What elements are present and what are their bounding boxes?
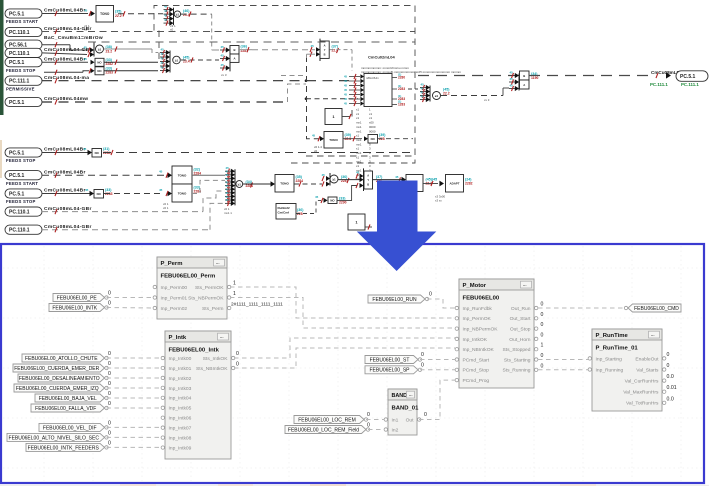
svg-text:45: 45 [84, 9, 88, 13]
svg-text:FEEDS STOP: FEEDS STOP [6, 199, 36, 204]
wire row6 long [42, 80, 352, 82]
wire INTK to Inp_Perm02 [107, 307, 154, 310]
NO1 contact box [92, 149, 102, 158]
svg-text:Inp_PermOK: Inp_PermOK [463, 316, 492, 322]
svg-text:Inp_NBPermOK: Inp_NBPermOK [463, 327, 499, 333]
tag FEBU06EL00_VEL_DIF [39, 423, 105, 431]
gate G1 boxes [230, 46, 239, 55]
BB input pins [349, 76, 360, 78]
wire FEBU06EL00_CUERDA_EMER_DER [107, 367, 163, 369]
svg-text:PC.5.1: PC.5.1 [9, 100, 25, 106]
wire OR2 to G4 [338, 179, 360, 181]
svg-text:P_RunTime_01: P_RunTime_01 [596, 346, 639, 352]
svg-text:45: 45 [226, 198, 230, 202]
svg-text:Inp_Perm01: Inp_Perm01 [161, 295, 188, 301]
svg-text:FEBU06EL00_CUERDA_EMER_IZQ: FEBU06EL00_CUERDA_EMER_IZQ [16, 386, 99, 392]
svg-text:FEEDS START: FEEDS START [6, 181, 38, 186]
svg-text:PC.110.1: PC.110.1 [9, 51, 30, 57]
svg-text:Y: Y [324, 48, 326, 52]
svg-text:≥1: ≥1 [238, 183, 242, 187]
tag FEBU06EL00_ST [365, 356, 418, 364]
input reference pill PC.111.1 row6 [5, 76, 42, 85]
svg-text:PCmd_Prog: PCmd_Prog [463, 378, 490, 384]
wire Sts_NBPermOK route [230, 298, 455, 329]
svg-text:Sts_NBIntkOK: Sts_NBIntkOK [196, 366, 228, 372]
svg-text:Cm/Cmf: Cm/Cmf [278, 211, 290, 215]
svg-text:P_Motor: P_Motor [463, 283, 487, 289]
wire into G3 top [418, 75, 515, 77]
wire y98.7 from junction [306, 98, 358, 100]
svg-text:FEBU06EL00_INTK_FEEDERS: FEBU06EL00_INTK_FEEDERS [28, 445, 100, 451]
svg-text:PC.111.1: PC.111.1 [650, 82, 668, 87]
svg-text:FEBU06EL00_SP: FEBU06EL00_SP [369, 368, 410, 374]
output reference pill PC.5.1 [676, 71, 708, 82]
svg-text:FEBU06EL00_CUERDA_EMER_DER: FEBU06EL00_CUERDA_EMER_DER [14, 366, 99, 372]
timer block B2 TON [324, 132, 343, 149]
svg-text:Y: Y [367, 178, 369, 182]
wire C2 out [181, 59, 219, 61]
svg-text:CmCu08mL04Br: CmCu08mL04Br [44, 8, 86, 14]
wire Sts_PermOK route [230, 287, 455, 318]
svg-text:Inp_Intk05: Inp_Intk05 [169, 406, 192, 412]
svg-text:...: ... [216, 260, 220, 265]
svg-text:45: 45 [221, 53, 225, 57]
svg-text:228: 228 [379, 137, 385, 141]
svg-text:22.8: 22.8 [345, 137, 352, 141]
svg-text:≥1: ≥1 [176, 13, 180, 17]
function block BAND BAND_01 [388, 389, 417, 435]
svg-text:0: 0 [108, 420, 111, 426]
svg-text:(1): (1) [398, 73, 401, 77]
svg-text:22.2: 22.2 [115, 14, 122, 18]
svg-text:0: 0 [367, 423, 370, 429]
svg-text:0.0: 0.0 [667, 374, 674, 380]
svg-text:(1): (1) [398, 100, 401, 104]
row7 elbow up [288, 84, 307, 102]
wire row11 [42, 211, 203, 213]
svg-text:RuNm22: RuNm22 [278, 206, 291, 210]
below-border gray strip [0, 485, 709, 486]
svg-text:0: 0 [108, 401, 111, 407]
function block P_Motor FEBU06EL00 [459, 279, 534, 388]
wire row9 [42, 174, 164, 176]
svg-text:PC.111.1: PC.111.1 [9, 79, 30, 85]
wire NO2 to TON bottom [104, 193, 164, 195]
tag FEBU06EL00_INTK [49, 304, 105, 312]
svg-text:PCmd_Stop: PCmd_Stop [463, 368, 490, 374]
svg-text:0: 0 [424, 412, 427, 418]
gate C2 OR circle [173, 56, 181, 64]
svg-text:Out_Stop: Out_Stop [510, 327, 531, 333]
svg-text:Sts_PermOK: Sts_PermOK [195, 285, 224, 291]
NO4 contact box [328, 197, 337, 204]
svg-text:45: 45 [159, 188, 163, 192]
wire B5 to ADAPT [423, 183, 438, 185]
wire row3 [42, 44, 70, 46]
input reference pill PC.5.1 row9 [5, 171, 42, 180]
panel blue border [1, 244, 704, 483]
tag FEBU06EL00_SP [365, 366, 418, 374]
svg-text:0: 0 [421, 363, 424, 369]
svg-text:0: 0 [421, 352, 424, 358]
gate O3 OR circle [433, 92, 441, 100]
svg-text:CmCu08mL04mw: CmCu08mL04mw [44, 96, 88, 102]
svg-text:0: 0 [108, 371, 111, 377]
svg-text:PC.5.1: PC.5.1 [9, 191, 25, 197]
svg-text:In2: In2 [392, 427, 399, 433]
constant box L1 [348, 214, 365, 230]
svg-text:2284: 2284 [103, 151, 111, 155]
svg-text:Inp_Intk03: Inp_Intk03 [169, 386, 192, 392]
svg-text:(1): (1) [398, 94, 401, 98]
timer TON3 [275, 175, 294, 193]
svg-text:0: 0 [367, 412, 370, 418]
input reference pill PC.110.1 row4 [5, 48, 42, 57]
svg-text:45: 45 [164, 4, 168, 8]
svg-text:Sts_Running: Sts_Running [502, 368, 530, 374]
wire NO5 out [104, 61, 158, 63]
svg-text:CmCu08mL04Br: CmCu08mL04Br [44, 169, 86, 175]
svg-text:TONO: TONO [280, 182, 289, 186]
K1 out riser [351, 110, 353, 117]
svg-text:45: 45 [221, 63, 225, 67]
NO5 contact box [95, 58, 104, 66]
svg-text:...: ... [409, 392, 413, 397]
input reference pill PC.5.1 row5 [5, 58, 42, 67]
svg-text:BAND: BAND [392, 393, 408, 399]
tag FEBU06EL00_LOC_REM_Field [285, 426, 366, 434]
svg-text:0: 0 [429, 292, 432, 298]
wire into B2 [318, 136, 320, 141]
svg-text:2#1111_1111_1111_1111: 2#1111_1111_1111_1111 [231, 302, 283, 308]
tag FEBU06EL00_CUERDA_EMER_IZQ [14, 384, 105, 392]
svg-text:228: 228 [297, 212, 303, 216]
svg-text:2282: 2282 [465, 182, 473, 186]
svg-text:FEEDS START: FEEDS START [6, 19, 38, 24]
input reference pill PC.110.1 row2 [5, 27, 42, 36]
svg-text:Inp_Intk08: Inp_Intk08 [169, 436, 192, 442]
svg-text:CmCu08mL04Br: CmCu08mL04Br [44, 56, 86, 62]
svg-text:0: 0 [108, 361, 111, 367]
input reference pill PC.56.1 row3 [5, 40, 42, 49]
gate G3 inputs [518, 74, 520, 91]
svg-text:mBmUfUm: mBmUfUm [366, 76, 379, 80]
svg-text:Sts_Starting: Sts_Starting [504, 357, 531, 363]
big blue arrow [357, 181, 437, 272]
gate cluster C1 inputs [173, 8, 175, 26]
svg-text:...: ... [651, 332, 655, 337]
svg-text:45: 45 [161, 65, 165, 69]
below-border smudge 4 [560, 484, 596, 486]
tag FEBU06EL00_CUERDA_EMER_DER [13, 364, 105, 372]
svg-text:PC.110.1: PC.110.1 [9, 210, 30, 216]
svg-text:Inp_Perm02: Inp_Perm02 [161, 306, 188, 312]
svg-text:0.01: 0.01 [667, 385, 677, 391]
wire NO6 out [104, 70, 158, 72]
svg-text:B: B [324, 53, 326, 57]
svg-text:In1: In1 [392, 417, 399, 423]
output arrowhead [666, 72, 671, 78]
gate G4 box [364, 171, 373, 189]
svg-text:45: 45 [221, 45, 225, 49]
svg-text:0: 0 [236, 351, 239, 357]
wire FEBU06EL00_BAJA_VEL [107, 397, 163, 399]
svg-text:45: 45 [312, 134, 316, 138]
svg-text:45: 45 [344, 102, 347, 106]
wire RUN to Inp_RunFdbk [427, 299, 455, 308]
svg-text:45: 45 [311, 44, 315, 48]
input reference pill PC.5.1 row10 [5, 189, 42, 198]
wire BB out row to O3 [408, 88, 418, 90]
wire Out_Run to CMD [538, 307, 626, 309]
wire FEBU06EL00_CUERDA_EMER_IZQ [107, 387, 163, 389]
svg-text:PERMISSIVE: PERMISSIVE [6, 86, 35, 91]
inner dashed region box bottom [306, 155, 415, 157]
wire ST [420, 359, 455, 361]
svg-text:FEBU06EL00_Perm: FEBU06EL00_Perm [161, 274, 216, 280]
elbow to G3 [502, 88, 504, 96]
wire G1 to G2 [239, 49, 252, 51]
svg-text:Inp_Intk01: Inp_Intk01 [169, 366, 192, 372]
svg-text:Val_CurRunHrs: Val_CurRunHrs [625, 379, 659, 385]
wire row8 into NO1 [42, 152, 88, 154]
svg-text:23.2: 23.2 [106, 49, 113, 53]
svg-text:45: 45 [344, 93, 347, 97]
gate G4 inputs [363, 168, 365, 191]
wire B1 to cluster C1 [118, 13, 163, 15]
svg-text:Inp_Intk09: Inp_Intk09 [169, 445, 192, 451]
svg-text:PC.5.1: PC.5.1 [9, 11, 25, 17]
svg-text:1: 1 [233, 291, 236, 297]
wire FEBU06EL00_FALLA_VDF [107, 407, 163, 409]
svg-text:A: A [324, 44, 326, 48]
svg-text:FEBU06EL00: FEBU06EL00 [463, 296, 500, 302]
svg-text:x3 xx: x3 xx [435, 199, 442, 203]
wire LOC_REM_Field to In2 [368, 429, 384, 431]
K1 out [342, 116, 350, 118]
BB output pins [392, 77, 397, 79]
svg-text:CmCu08mL04-GBr: CmCu08mL04-GBr [44, 224, 92, 230]
svg-text:45: 45 [344, 75, 347, 79]
svg-text:45: 45 [84, 46, 88, 50]
svg-text:FEBU06EL00_PE: FEBU06EL00_PE [57, 295, 98, 301]
wire SP [420, 369, 455, 371]
svg-text:Out: Out [406, 417, 415, 423]
svg-text:45: 45 [164, 9, 168, 13]
wire Sts_IntkOK route [234, 338, 455, 358]
svg-text:2290: 2290 [339, 201, 347, 205]
svg-text:0: 0 [541, 353, 544, 359]
wire O3 out [441, 95, 503, 97]
svg-text:...: ... [523, 282, 527, 287]
svg-text:CmCu08mL04-ma: CmCu08mL04-ma [44, 75, 89, 81]
svg-text:CmCu08mL04-GBr: CmCu08mL04-GBr [44, 206, 92, 212]
svg-text:mx1 1: mx1 1 [224, 211, 232, 215]
svg-text:xx 3: xx 3 [221, 73, 227, 77]
input reference pill PC.5.1 row1 [5, 9, 42, 18]
wire row1 pill to TON [42, 13, 88, 15]
svg-text:0: 0 [108, 391, 111, 397]
svg-text:BAND_01: BAND_01 [392, 406, 420, 412]
svg-text:xx 3: xx 3 [484, 98, 490, 102]
input reference pill PC.110.1 row12 [5, 225, 42, 234]
svg-text:45: 45 [344, 84, 347, 88]
staircase row12 to cluster [210, 203, 225, 229]
svg-text:2283: 2283 [105, 192, 113, 196]
svg-text:0: 0 [541, 332, 544, 338]
wire LOC_REM to In1 [366, 419, 384, 421]
wire OR38 out [104, 48, 153, 50]
svg-text:0: 0 [541, 302, 544, 308]
svg-text:45: 45 [85, 188, 89, 192]
svg-text:0: 0 [667, 363, 670, 369]
function block P_Perm FEBU06EL00_Perm [157, 257, 227, 319]
outer dashed region box [154, 6, 415, 164]
svg-text:Inp_Intk00: Inp_Intk00 [169, 356, 192, 362]
svg-text:PC.5.1: PC.5.1 [9, 150, 25, 156]
wire FEBU06EL00_VEL_DIF [107, 426, 163, 428]
svg-text:TONO: TONO [100, 12, 110, 16]
svg-text:1190: 1190 [531, 76, 538, 80]
svg-text:FEBU06EL00_RUN: FEBU06EL00_RUN [372, 297, 417, 303]
svg-text:B: B [233, 48, 235, 52]
svg-text:Inp_Intk07: Inp_Intk07 [169, 426, 192, 432]
svg-text:1: 1 [541, 343, 544, 349]
tag FEBU06EL00_INTK_FEEDERS [26, 443, 105, 451]
wire FEBU06EL00_INTK_FEEDERS [107, 446, 163, 448]
svg-text:45: 45 [164, 18, 168, 22]
tag FEBU06EL00_FALLA_VDF [31, 404, 105, 412]
svg-text:45: 45 [421, 94, 425, 98]
svg-text:CmCu02mL04: CmCu02mL04 [368, 55, 395, 60]
panel background [2, 245, 704, 483]
below-border smudge 3 [310, 484, 346, 486]
wire FEBU06EL00_ATOLLO_CHUTE [107, 357, 163, 359]
svg-text:A: A [367, 174, 369, 178]
svg-text:Out_Horn: Out_Horn [509, 337, 530, 343]
svg-text:0: 0 [236, 362, 239, 368]
gate CL2 OR circle [236, 181, 243, 188]
wire row7 [42, 101, 288, 103]
wire RuNm22 out elbow [296, 200, 321, 213]
TON pair out elbows [192, 174, 225, 176]
block RuNm22 On/Off [276, 204, 296, 220]
svg-text:FEBU06EL00_INTK: FEBU06EL00_INTK [52, 305, 97, 311]
svg-text:Sts_Perm: Sts_Perm [202, 306, 223, 312]
svg-text:FEBU06EL00_ST: FEBU06EL00_ST [370, 357, 410, 363]
wire G2 out [330, 49, 353, 51]
svg-text:45: 45 [344, 88, 347, 92]
gate G2 inputs [319, 39, 321, 61]
faint grid [3, 246, 702, 481]
svg-text:≥1: ≥1 [175, 59, 179, 63]
svg-text:Inp_NBIntkOK: Inp_NBIntkOK [463, 347, 495, 353]
svg-text:FEEDS STOP: FEEDS STOP [6, 158, 36, 163]
svg-text:2284: 2284 [296, 179, 304, 183]
svg-text:A: A [233, 57, 235, 61]
svg-text:Inp_Intk04: Inp_Intk04 [169, 396, 192, 402]
block B5 behind arrow [406, 175, 423, 192]
svg-text:PC.110.1: PC.110.1 [9, 228, 30, 234]
svg-text:0: 0 [541, 363, 544, 369]
svg-text:≥1: ≥1 [435, 94, 439, 98]
svg-text:TONO: TONO [329, 138, 338, 142]
constant box K1 [325, 109, 342, 125]
left margin strip [0, 0, 4, 115]
svg-text:FEBU06EL00_CMD: FEBU06EL00_CMD [634, 306, 679, 312]
block BB body [364, 74, 392, 107]
svg-text:45: 45 [356, 171, 360, 175]
svg-text:P_Intk: P_Intk [169, 335, 187, 341]
svg-text:45: 45 [161, 47, 165, 51]
svg-text:45: 45 [510, 77, 514, 81]
NO6 contact box [95, 67, 104, 75]
svg-text:0: 0 [108, 291, 111, 297]
svg-text:Val_MaxRunHrs: Val_MaxRunHrs [623, 390, 659, 396]
svg-text:45: 45 [161, 61, 165, 65]
timer TON pair bottom [172, 184, 192, 202]
svg-text:0: 0 [108, 430, 111, 436]
svg-text:x0 1: x0 1 [163, 206, 169, 210]
NO3 contact box [368, 135, 378, 144]
gate G1 bar [229, 46, 231, 72]
wire FEBU06EL00_DESALINEAMIENTO [107, 377, 163, 379]
wire CL2 to TON3 [243, 183, 271, 185]
outer box left lower vertical [158, 31, 160, 61]
svg-text:0: 0 [108, 440, 111, 446]
svg-text:(1): (1) [398, 84, 401, 88]
svg-text:45: 45 [164, 13, 168, 17]
svg-text:B: B [523, 74, 525, 78]
svg-text:CmCu08mL04Br: CmCu08mL04Br [44, 188, 86, 194]
wire NO4 up to G4 [337, 186, 357, 201]
tag FEBU06EL00_CMD [628, 304, 681, 312]
svg-text:45: 45 [510, 70, 514, 74]
svg-text:PC.111.1: PC.111.1 [681, 82, 699, 87]
svg-text:45: 45 [159, 170, 163, 174]
svg-text:45: 45 [344, 97, 347, 101]
tag FEBU06EL00_PE [53, 294, 105, 302]
wire row extra y72 [44, 71, 83, 73]
svg-text:A: A [523, 83, 525, 87]
wire FEBU06EL00_ALTO_NIVEL_SILO_SEC [107, 436, 163, 438]
svg-text:0: 0 [108, 381, 111, 387]
function block P_Intk FEBU06EL00_Intk [165, 331, 231, 459]
tag FEBU06EL00_BAJA_VEL [35, 394, 105, 402]
tag FEBU06EL00_LOC_REM [294, 416, 364, 424]
svg-text:0: 0 [108, 351, 111, 357]
gate G2 box [320, 41, 329, 58]
svg-text:45: 45 [161, 52, 165, 56]
gate cluster C2 inputs [169, 51, 171, 73]
svg-text:45: 45 [84, 57, 88, 61]
wire row10 into NO2 [42, 193, 90, 195]
svg-text:45: 45 [395, 175, 399, 179]
below-border smudge 1 [120, 484, 156, 486]
svg-text:Val_TotRunHrs: Val_TotRunHrs [626, 401, 659, 407]
svg-text:Sts_Stopped: Sts_Stopped [502, 347, 530, 353]
svg-text:≥1: ≥1 [332, 178, 336, 182]
staircase row11 to cluster [203, 191, 225, 212]
svg-text:PC.5.1: PC.5.1 [680, 74, 696, 80]
gate C1 OR circle [174, 11, 180, 17]
wire Sts_Starting to RunTime [538, 359, 588, 361]
svg-text:PC.5.1: PC.5.1 [9, 173, 25, 179]
wire G3 to output pill [529, 75, 652, 77]
gate OR2 circle [330, 175, 338, 183]
svg-text:Inp_RunFdbk: Inp_RunFdbk [463, 306, 493, 312]
svg-text:Out_Start: Out_Start [510, 316, 532, 322]
